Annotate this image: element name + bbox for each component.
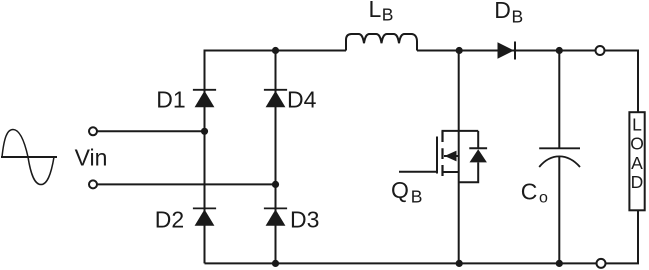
label D1 — [156, 87, 185, 113]
label Co — [521, 179, 548, 207]
svg-text:L: L — [632, 115, 642, 135]
label Vin — [75, 145, 108, 171]
svg-text:L: L — [369, 0, 382, 22]
node dot D4-rail — [272, 47, 279, 54]
node dot D4-D3 midpoint — [272, 181, 279, 188]
wire bottom rail — [205, 262, 597, 264]
transistor QB drain bar — [442, 130, 479, 132]
svg-text:D3: D3 — [290, 206, 319, 232]
label D2 — [155, 206, 184, 232]
label QB — [391, 177, 422, 207]
transistor QB body arrow — [444, 151, 459, 162]
diode D1 — [193, 90, 216, 107]
svg-text:B: B — [382, 5, 394, 25]
wire top rail middle — [417, 50, 596, 52]
wire right bridge leg — [275, 51, 277, 264]
transistor QB channel segments — [441, 131, 443, 176]
wire top rail left — [204, 50, 347, 52]
transistor QB source bar — [443, 171, 459, 173]
svg-text:O: O — [630, 133, 644, 153]
wire top input — [97, 130, 204, 132]
diode D3 — [264, 208, 287, 225]
wire right leg bottom — [606, 210, 638, 263]
output terminal bottom — [597, 259, 606, 268]
svg-text:Q: Q — [391, 177, 409, 203]
node dot bottom D3 — [272, 260, 279, 267]
svg-text:B: B — [512, 7, 524, 27]
node dot drain-rail — [456, 47, 463, 54]
svg-text:C: C — [521, 179, 538, 205]
svg-text:D1: D1 — [156, 87, 185, 113]
svg-text:Vin: Vin — [75, 145, 108, 171]
diode D2 — [193, 208, 216, 225]
label D4 — [287, 87, 317, 113]
input terminal top — [89, 127, 97, 135]
AC source axis line — [1, 156, 57, 158]
svg-text:D4: D4 — [287, 87, 317, 113]
wire top right corner — [604, 51, 638, 113]
capacitor Co bottom lead — [558, 157, 560, 264]
label DB — [494, 0, 523, 27]
label D3 — [290, 206, 319, 232]
body diode of QB — [459, 131, 487, 182]
inductor LB — [346, 34, 417, 51]
transistor QB gate bar — [436, 137, 438, 174]
transistor QB gate lead — [399, 171, 437, 173]
AC source sine wave — [2, 130, 54, 185]
wire bottom input — [97, 183, 275, 185]
input terminal bottom — [89, 180, 97, 188]
svg-text:D: D — [631, 172, 644, 192]
svg-text:D2: D2 — [155, 206, 184, 232]
node dot cap-rail — [556, 47, 563, 54]
svg-text:o: o — [539, 190, 548, 207]
label LB — [369, 0, 394, 25]
LOAD box — [629, 112, 644, 210]
svg-text:B: B — [411, 187, 423, 207]
output terminal top — [596, 46, 605, 55]
svg-text:A: A — [631, 153, 643, 173]
capacitor Co top plate — [539, 147, 580, 149]
diode DB — [498, 42, 516, 60]
wire MOSFET trunk — [458, 51, 460, 264]
capacitor Co curved plate — [539, 156, 580, 167]
diode D4 — [264, 90, 287, 107]
svg-text:D: D — [494, 0, 511, 23]
wire left bridge leg — [204, 51, 206, 264]
capacitor Co top lead — [558, 51, 560, 149]
node dot bottom cap — [556, 260, 563, 267]
node dot D1-D2 midpoint — [201, 128, 208, 135]
node dot bottom source — [456, 260, 463, 267]
